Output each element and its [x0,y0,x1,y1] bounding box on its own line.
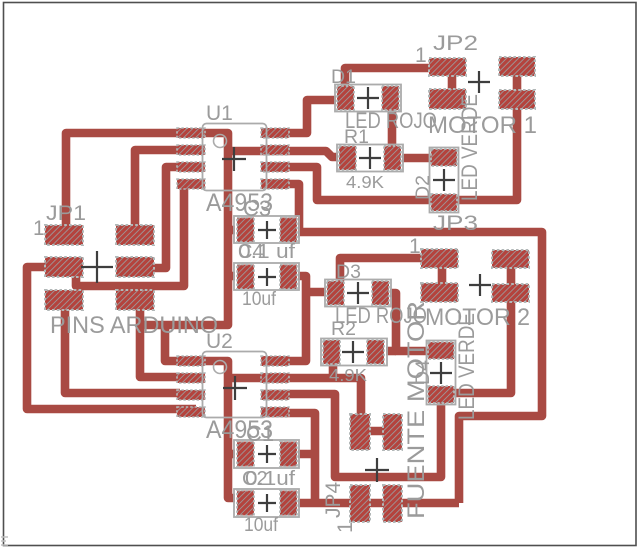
C1 pad 1 [237,442,254,467]
U2 pad pin7 [261,373,289,383]
U2 pad pin4 [177,407,205,417]
wire VT2 through-body to U2 pin8 row and JP4 pad A [228,378,361,420]
U2 pad pin5 [261,407,289,417]
wire R1 right to D2 top [398,154,436,163]
wire U2 pin6 row to D4 bottom [261,394,441,477]
U1 pad pin1 [177,128,205,138]
JP4 pad D [383,485,402,522]
svg-text:R1: R1 [344,126,369,148]
C4 outline [234,263,299,290]
JP1 pad 6 [116,290,154,310]
crosshair U2 origin [223,376,247,400]
svg-text:U1: U1 [206,102,233,125]
wire U1 through-body pin7 row to R1 left [228,151,344,157]
wire U1 pin3 to JP1 row2 pads [154,167,180,268]
C1 outline [234,440,299,468]
crosshair C2 origin [258,494,276,512]
U2 pad pin6 [261,390,289,400]
svg-text:LED VERDE: LED VERDE [457,94,482,201]
crosshair R2 origin [342,341,364,363]
U1 pin1 marker circle [214,135,227,148]
svg-text:R2: R2 [331,318,356,340]
JP2 pad 1 [429,58,466,76]
R1 pad 2 [384,146,401,170]
C2 pad 2 [280,491,297,516]
R2 pad 2 [367,340,384,364]
crosshair C1 origin [258,445,276,463]
op-amp U1 A4953 [177,124,289,191]
JP4 pad A [350,414,370,450]
JP1 pad 5 [45,290,83,310]
wire C1 right stub [297,450,315,459]
D4 pad anode [428,386,454,403]
LED D2 LED VERDE [430,148,459,213]
wire D3 left to JP3 pad1 [340,258,440,283]
C1 pad 2 [280,442,297,467]
wire U1 pin6 to D2 bottom [285,167,436,200]
capacitor C4 10uf [234,263,299,290]
wire junction to R2 right [380,347,396,356]
JP3 pad 1 [421,249,458,268]
JP2 pad 2 [429,89,466,109]
crosshair JP4 origin [365,458,389,482]
wire JP3 pad1 to pad2 stub [438,260,447,290]
U2 pad pin8 [261,356,289,366]
wire VT2 to C1 left stub [227,450,243,459]
wire JP1-5 to U2 pin2 row [65,308,180,393]
crosshair JP1 origin [81,251,113,283]
D4 outline [427,341,456,405]
U1 pad pin3 [177,162,205,172]
MOTOR1 pad 2 [499,90,535,109]
crosshair D2 origin [433,169,455,191]
svg-text:1: 1 [33,217,45,240]
LED D1 LED ROJO [335,85,401,112]
svg-text:C2: C2 [242,468,268,490]
svg-text:JP1: JP1 [46,202,86,225]
D1 outline [335,85,401,112]
U1 pad pin5 [261,179,289,189]
D3 pad cathode [327,281,344,305]
wire branch down to U2 pin1 row and VT2 down to C2 [165,325,240,498]
R1 outline [337,145,403,172]
wire JP2 pad1 to pad2 stub [448,72,457,93]
wire JP1-3 to U2 pin4 and pin3 rows [27,267,196,409]
svg-text:D1: D1 [331,66,356,88]
svg-text:D3: D3 [336,261,361,283]
wire JP1-1 to U1 pin1 and VT1 down to C3/C4 and back to JP1-6 [66,133,228,325]
wire JP1-3 bottom to U1 pin4 [76,186,184,286]
svg-text:1: 1 [334,521,357,533]
R1 pad 1 [339,146,356,170]
C3 pad 1 [237,218,254,243]
JP1 pad 3 [45,257,83,277]
wire C2 right to JP4 pads C D [297,499,459,508]
U2 pad pin1 [177,356,205,366]
wire D1 right to R1 right [388,105,397,152]
MOTOR1 pad 1 [499,57,535,76]
crosshair MOTOR1 origin [468,71,490,93]
wire C4 right to U2 pin8... row1 right [261,276,306,361]
crosshair C3 origin [258,221,276,239]
connector JP3 [421,249,458,302]
crosshair C4 origin [258,268,276,286]
crosshair R1 origin [359,147,381,169]
svg-text:C3: C3 [243,196,271,221]
wire U2 pin5 row down to JP4 row2 trace [261,413,315,500]
connector JP4 FUENTE MOTOR [350,414,402,522]
svg-text:C4: C4 [238,241,264,263]
LED D3 LED ROJO [325,280,391,307]
capacitor C3 0.1uf [234,216,299,243]
C4 pad 2 [280,265,297,290]
board origin mark [1,537,8,545]
C3 pad 2 [280,218,297,243]
C2 outline [234,489,299,517]
C2 pad 1 [237,491,254,516]
MOTOR2 pad 1 [492,250,529,268]
U1 body outline [203,124,267,191]
U1 pad pin6 [261,162,289,172]
wire JP4 pad A to pad B stub [359,427,393,436]
wire MOTOR2 pads down to D4 bottom [453,259,511,393]
JP1 pad 1 [45,225,83,245]
wire JP1-2 to U1 pin2 row [135,150,180,240]
resistor R1 4.9K [337,145,403,172]
crosshair D1 origin [357,87,379,109]
crosshair D3 origin [347,282,369,304]
svg-text:1: 1 [415,44,427,67]
D2 outline [430,148,459,213]
svg-text:4.9K: 4.9K [329,365,367,385]
capacitor C2 10uf [234,489,299,517]
svg-text:JP2: JP2 [433,32,478,55]
svg-text:D2: D2 [412,175,434,200]
D4 pad cathode [428,342,454,359]
svg-text:10uf: 10uf [242,288,277,310]
D2 pad cathode [431,149,457,166]
wire VT1 to C4 left stub [227,272,243,281]
wire U1 pin5 down to long H232 [285,184,299,228]
svg-text:LED VERDE: LED VERDE [454,313,479,420]
U2 pad pin2 [177,373,205,383]
capacitor C1 0.1uf [234,440,299,468]
crosshair MOTOR2 origin [469,274,491,296]
svg-text:10uf: 10uf [244,514,279,536]
R2 pad 1 [323,340,340,364]
crosshair U1 origin [222,147,246,171]
connector MOTOR 2 [492,250,529,302]
connector MOTOR 1 [499,57,535,109]
resistor R2 4.9K [321,339,387,366]
U2 pad pin3 [177,390,205,400]
JP3 pad 2 [421,283,458,302]
JP1 pad 4 [116,257,154,277]
crosshair D4 origin [430,362,452,384]
C4 pad 1 [237,265,254,290]
svg-text:JP4: JP4 [322,481,345,518]
wire R2 left stub down [329,360,338,377]
D1 pad anode [382,86,399,110]
C3 outline [234,216,299,243]
R2 outline [321,339,387,366]
wire C3 right long route to JP4 row2 [297,232,542,503]
connector JP1 PINS ARDUINO [45,225,154,310]
wire D3 right to D4 top [384,293,430,351]
svg-text:4.9K: 4.9K [346,172,384,192]
U1 pad pin2 [177,145,205,155]
JP4 pad C [350,485,370,522]
wire VT1 to C3 left stub [227,226,243,235]
connector JP2 [429,58,466,109]
JP1 pad 2 [116,225,154,245]
U1 pad pin8 [261,128,289,138]
LED D4 LED VERDE [427,341,456,405]
U2 pin1 marker circle [214,361,227,374]
svg-text:JP3: JP3 [433,212,478,235]
svg-text:PINS ARDUINO: PINS ARDUINO [50,312,218,339]
U1 pad pin7 [261,145,289,155]
D3 pad anode [372,281,389,305]
wire D1 left up to JP2 pad1 [345,68,447,91]
MOTOR2 pad 2 [492,284,529,302]
svg-text:1: 1 [409,235,421,258]
svg-text:C1: C1 [246,421,274,446]
U1 pad pin4 [177,179,205,189]
op-amp U2 A4953 [177,352,289,418]
JP4 pad B [383,414,402,450]
svg-text:MOTOR 1: MOTOR 1 [428,112,537,139]
D1 pad cathode [337,86,354,110]
U2 body outline [203,352,267,418]
wire VX to D3 left stub [306,288,330,297]
wire U1 pin8 to D1 left [283,100,341,133]
D2 pad anode [431,194,457,211]
D3 outline [325,280,391,307]
wire MOTOR1 pads to D2 bottom [453,64,517,200]
svg-text:FUENTE MOTOR: FUENTE MOTOR [403,301,430,519]
